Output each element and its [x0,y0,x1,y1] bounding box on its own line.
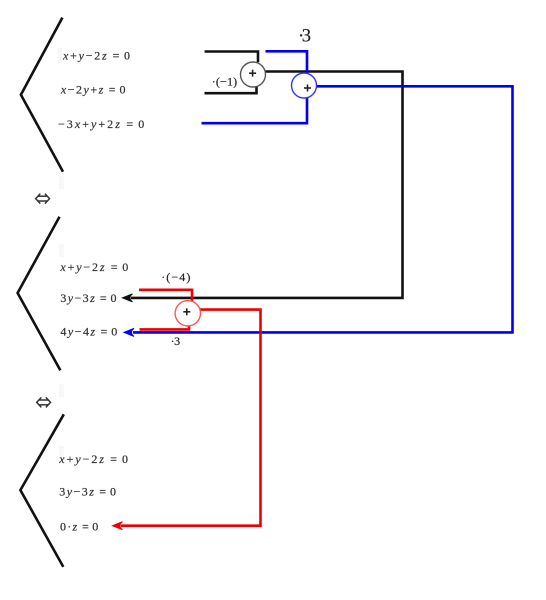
svg-text:·3: ·3 [171,334,181,348]
svg-text:·(−4): ·(−4) [161,270,190,284]
equivalence arrow 1 [36,194,50,204]
equivalence arrow 2 [37,397,51,407]
svg-text:x+y−2z = 0: x+y−2z = 0 [62,49,130,63]
wire: adder U1 output to row E2' (black feedback) [131,72,403,298]
wire: E1 into adder U1 top [205,52,258,63]
adder U3 [175,301,200,326]
arrowhead: red into E3'' [113,522,123,530]
svg-text:x+y−2z = 0: x+y−2z = 0 [59,260,128,274]
svg-text:4y−4z = 0: 4y−4z = 0 [60,325,117,339]
svg-text:x+y−2z = 0: x+y−2z = 0 [58,452,128,466]
arrowhead: black into E2' [123,294,133,302]
plus sign U1 [249,70,256,77]
wire: adder U2 output to row E3' (blue feedback) [133,86,513,332]
plus sign U2 [304,85,311,92]
svg-text:x−2y+z = 0: x−2y+z = 0 [60,83,126,97]
system 3 brace [20,414,63,567]
wire: adder U3 output to row E3'' (red feedback) [121,310,261,526]
wire: E1 branch into adder U2 top [266,51,308,73]
svg-text:3y−3z = 0: 3y−3z = 0 [59,484,116,498]
arrowhead: blue into E3' [124,328,134,336]
svg-text:0·z = 0: 0·z = 0 [60,520,98,534]
svg-text:·(−1): ·(−1) [212,75,237,89]
wire: E3 into adder U2 bottom [202,98,308,124]
svg-text:·3: ·3 [298,26,311,46]
system 2 brace [18,217,61,371]
wire: E3' into adder U3 bottom [140,326,190,330]
svg-text:3y−3z = 0: 3y−3z = 0 [60,291,116,305]
wire: E2 into adder U1 bottom [205,87,257,94]
system 1 brace [21,18,63,172]
wire: E2' into adder U3 top [139,290,192,302]
svg-text:−3x+y+2z = 0: −3x+y+2z = 0 [58,117,144,131]
plus sign U3 [183,308,190,315]
adder U1 [241,62,266,87]
adder U2 [292,73,317,98]
